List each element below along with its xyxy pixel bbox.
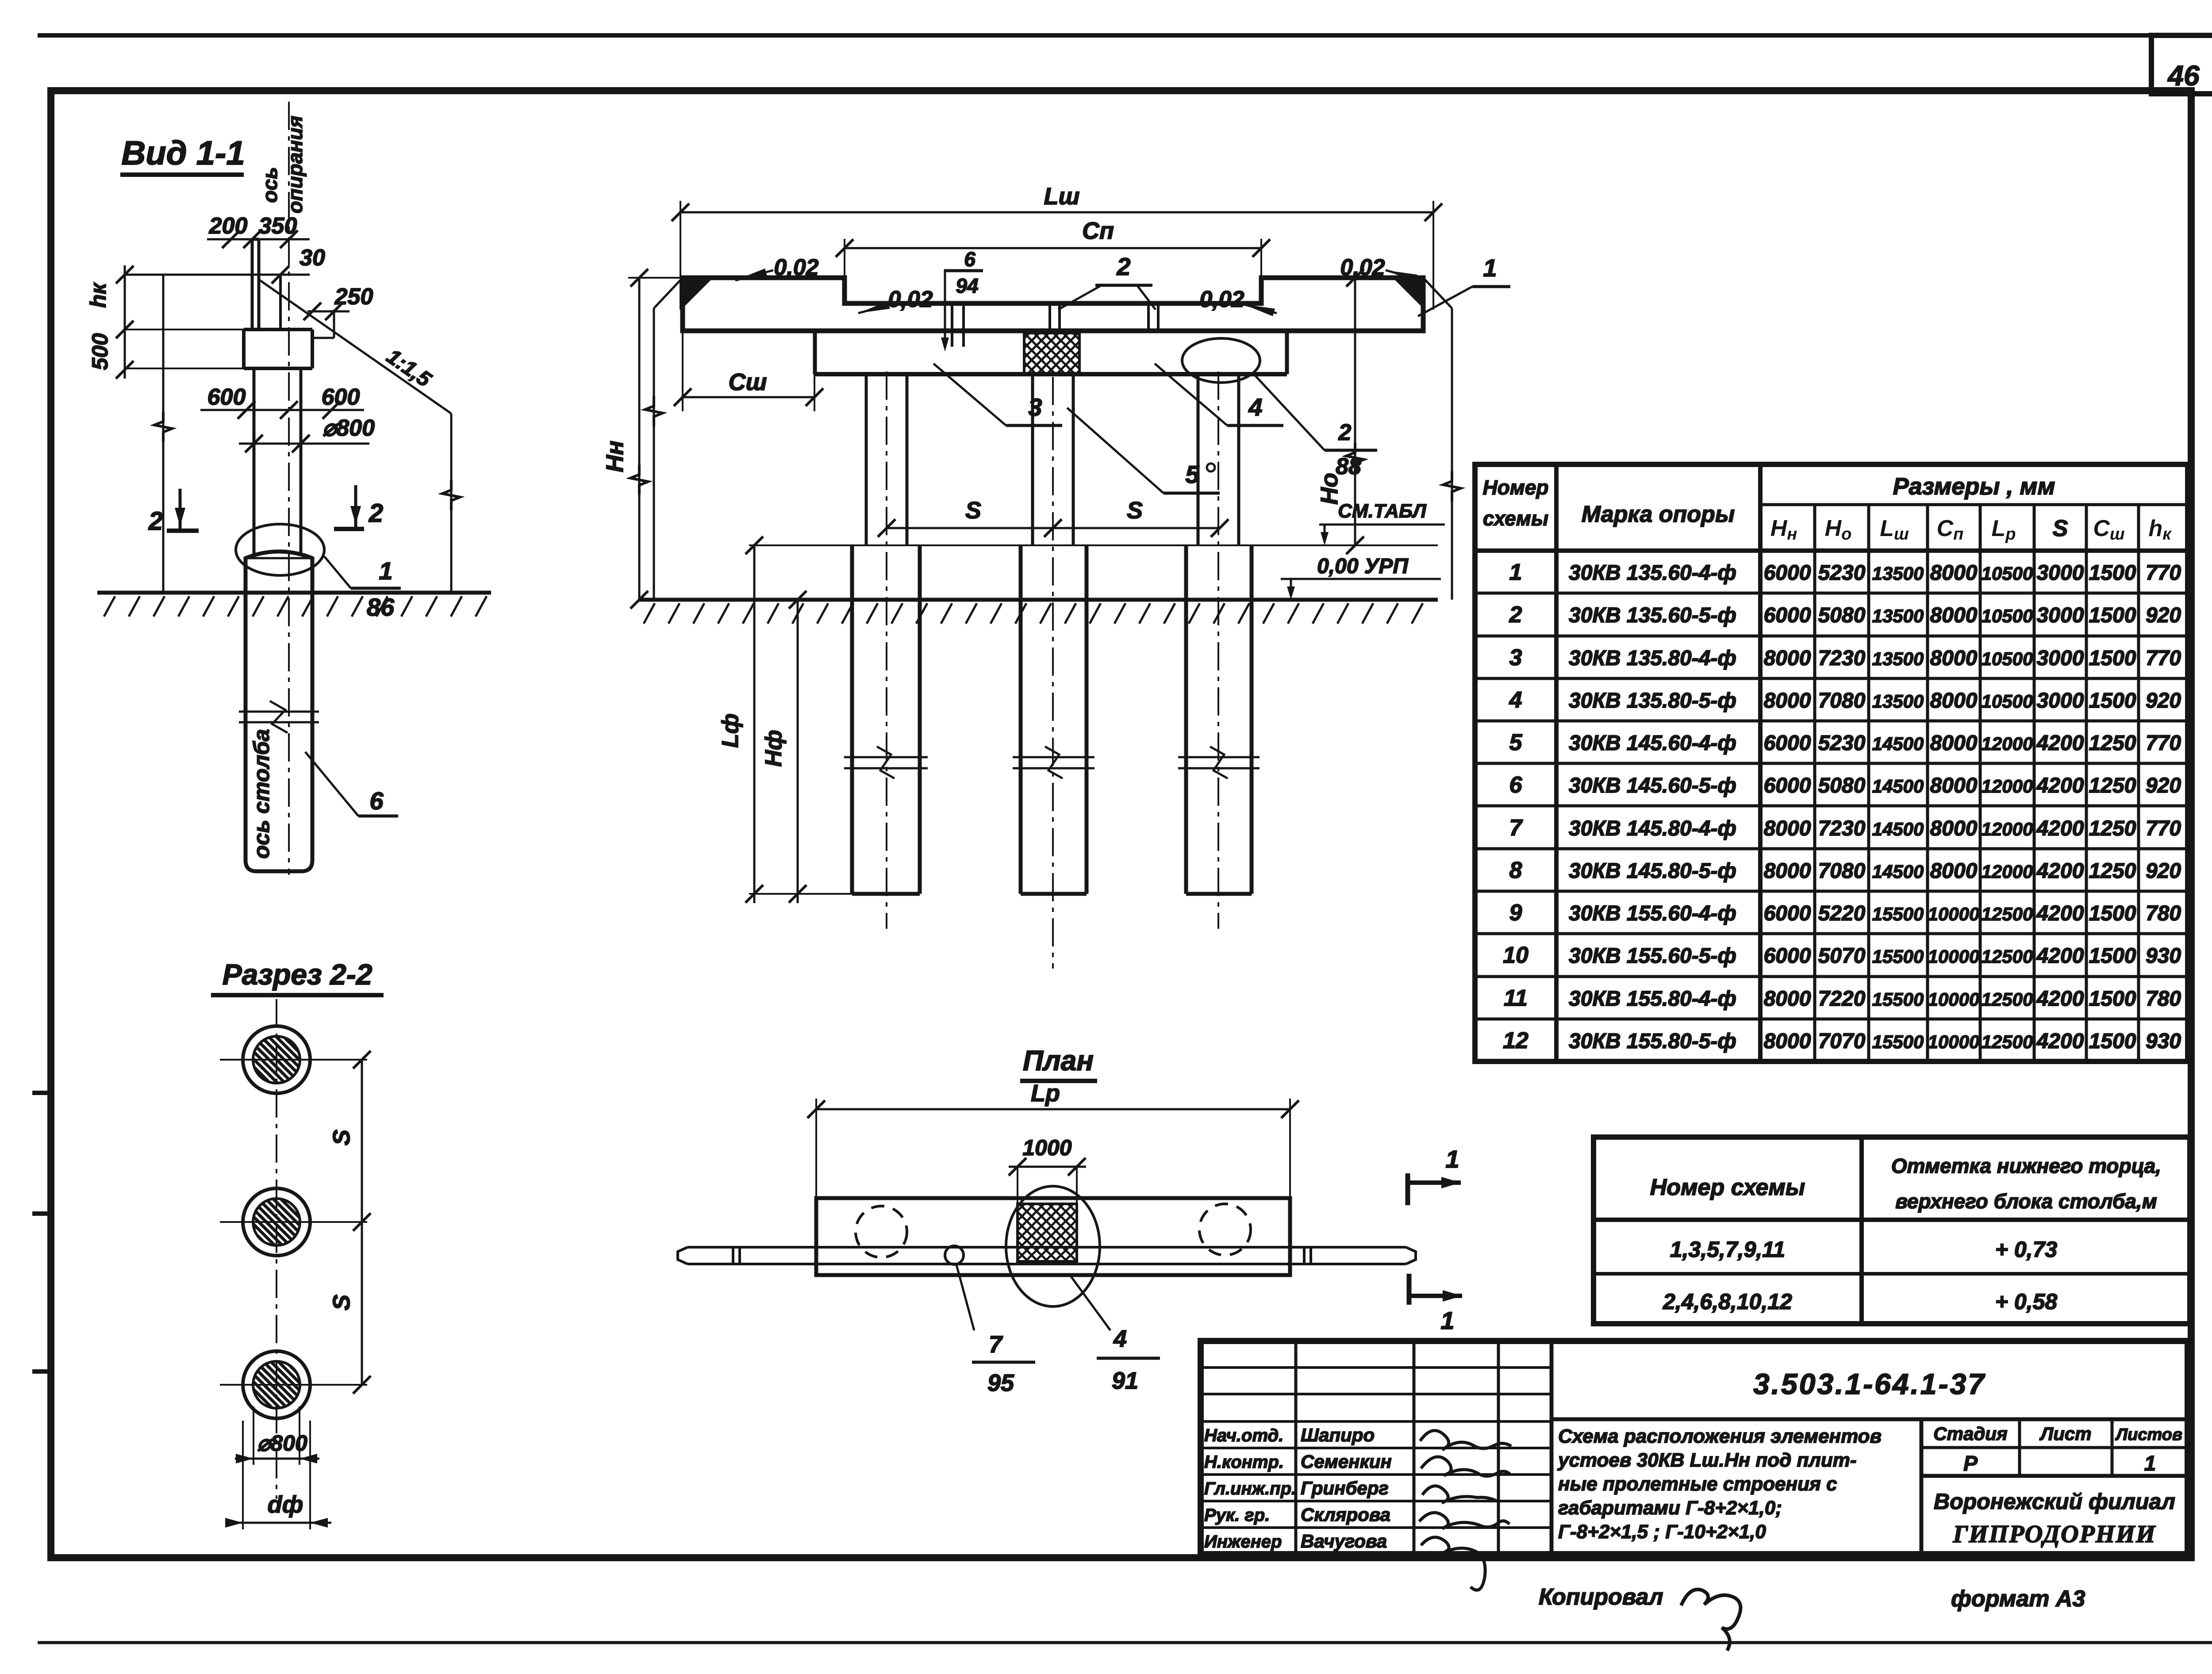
svg-text:7230: 7230 [1818,647,1866,670]
svg-text:6: 6 [964,248,975,271]
svg-text:S: S [328,1130,355,1145]
svg-text:S: S [2053,516,2068,541]
svg-text:12500: 12500 [1982,989,2033,1010]
svg-text:7: 7 [989,1331,1003,1358]
svg-text:Стадия: Стадия [1933,1423,2007,1444]
svg-text:8000: 8000 [1930,647,1978,670]
svg-text:3000: 3000 [2037,689,2084,713]
svg-text:2: 2 [148,507,163,536]
svg-text:опирания: опирания [284,116,307,214]
svg-text:13500: 13500 [1872,648,1924,669]
svg-text:4200: 4200 [2036,817,2084,840]
svg-text:770: 770 [2146,647,2181,670]
svg-text:0,02: 0,02 [774,255,818,280]
svg-text:Г-8+2×1,5 ; Г-10+2×1,0: Г-8+2×1,5 ; Г-10+2×1,0 [1558,1521,1766,1543]
svg-text:Lф: Lф [718,713,743,748]
svg-text:780: 780 [2146,987,2181,1011]
svg-text:1500: 1500 [2089,1030,2136,1053]
svg-text:Нач.отд.: Нач.отд. [1204,1426,1283,1445]
svg-text:Склярова: Склярова [1301,1504,1390,1525]
svg-text:30КВ 135.80-4-ф: 30КВ 135.80-4-ф [1569,647,1736,670]
svg-text:+ 0,73: + 0,73 [1995,1237,2058,1262]
svg-text:5230: 5230 [1818,732,1866,755]
svg-text:920: 920 [2146,774,2181,797]
svg-text:30КВ 135.60-5-ф: 30КВ 135.60-5-ф [1569,604,1736,627]
svg-text:Вид 1-1: Вид 1-1 [121,134,245,172]
svg-text:15500: 15500 [1872,989,1924,1010]
svg-text:5080: 5080 [1818,604,1866,627]
svg-text:10000: 10000 [1928,904,1980,924]
svg-text:12000: 12000 [1982,733,2033,754]
svg-text:1: 1 [1445,1145,1459,1173]
svg-text:1500: 1500 [2089,604,2136,627]
svg-text:30КВ 135.80-5-ф: 30КВ 135.80-5-ф [1569,689,1736,713]
svg-text:6000: 6000 [1764,561,1811,585]
svg-text:250: 250 [334,284,373,310]
svg-text:0,00 УРП: 0,00 УРП [1317,555,1409,578]
svg-text:⌀800: ⌀800 [323,415,375,441]
svg-text:10500: 10500 [1982,605,2033,626]
svg-text:94: 94 [956,274,978,297]
svg-text:930: 930 [2146,1030,2181,1053]
svg-text:6000: 6000 [1764,774,1811,797]
svg-text:4200: 4200 [2036,774,2084,797]
svg-text:2,4,6,8,10,12: 2,4,6,8,10,12 [1663,1289,1792,1314]
svg-text:8000: 8000 [1764,817,1811,840]
svg-text:46: 46 [2167,60,2200,92]
svg-text:3000: 3000 [2037,604,2084,627]
svg-text:Нф: Нф [761,730,787,767]
svg-text:200: 200 [209,213,248,239]
svg-text:3: 3 [1509,645,1522,670]
svg-text:Воронежский филиал: Воронежский филиал [1934,1489,2175,1514]
svg-text:770: 770 [2146,817,2181,840]
svg-text:Нн: Нн [602,441,628,472]
svg-text:4200: 4200 [2036,1030,2084,1053]
svg-text:формат А3: формат А3 [1951,1586,2085,1612]
svg-text:S: S [328,1295,355,1310]
svg-text:Сш: Сш [728,369,767,395]
svg-text:5080: 5080 [1818,774,1866,797]
svg-text:1: 1 [2144,1452,2156,1475]
svg-text:3000: 3000 [2037,561,2084,585]
svg-text:1500: 1500 [2089,647,2136,670]
svg-text:8000: 8000 [1930,774,1978,797]
svg-text:1: 1 [1483,254,1497,282]
svg-text:⌀800: ⌀800 [257,1431,307,1456]
svg-text:13500: 13500 [1872,605,1924,626]
svg-text:920: 920 [2146,859,2181,883]
svg-text:7080: 7080 [1818,859,1866,883]
svg-text:8000: 8000 [1764,689,1811,713]
svg-text:9: 9 [1509,900,1522,926]
svg-text:91: 91 [1112,1368,1138,1394]
svg-text:4: 4 [1113,1325,1127,1352]
svg-text:1250: 1250 [2089,732,2136,755]
svg-text:Марка опоры: Марка опоры [1582,502,1735,527]
svg-text:12000: 12000 [1982,819,2033,839]
svg-text:14500: 14500 [1872,776,1924,797]
svg-text:4200: 4200 [2036,944,2084,968]
svg-text:+ 0,58: + 0,58 [1995,1289,2058,1314]
svg-text:3000: 3000 [2037,647,2084,670]
svg-text:ось столба: ось столба [249,729,274,858]
svg-text:500: 500 [88,333,112,370]
svg-text:Шапиро: Шапиро [1301,1425,1375,1445]
svg-text:1: 1 [1440,1306,1454,1334]
svg-text:устоев 30КВ Lш.Нн под плит-: устоев 30КВ Lш.Нн под плит- [1557,1449,1857,1471]
svg-text:S: S [1127,497,1143,524]
svg-text:6000: 6000 [1764,944,1811,968]
svg-text:4200: 4200 [2036,987,2084,1011]
svg-text:10500: 10500 [1982,563,2033,584]
svg-text:10: 10 [1503,942,1528,968]
svg-text:4: 4 [1509,687,1522,713]
svg-text:8000: 8000 [1930,689,1978,713]
svg-text:7: 7 [1509,815,1523,841]
svg-text:7070: 7070 [1818,1030,1866,1053]
svg-text:2: 2 [1338,420,1352,445]
svg-text:Р: Р [1963,1452,1978,1475]
svg-text:15500: 15500 [1872,1031,1924,1052]
svg-text:габаритами Г-8+2×1,0;: габаритами Г-8+2×1,0; [1558,1497,1782,1519]
svg-text:1500: 1500 [2089,987,2136,1011]
svg-text:1,3,5,7,9,11: 1,3,5,7,9,11 [1670,1237,1785,1262]
svg-text:0,02: 0,02 [1340,255,1385,280]
svg-text:8000: 8000 [1930,561,1978,585]
svg-text:Вачугова: Вачугова [1301,1531,1387,1551]
svg-text:7220: 7220 [1818,987,1866,1011]
svg-text:СМ.ТАБЛ: СМ.ТАБЛ [1338,500,1426,522]
svg-text:30: 30 [300,245,325,271]
svg-text:10500: 10500 [1982,648,2033,669]
svg-text:95: 95 [987,1370,1014,1396]
svg-text:ГИПРОДОРНИИ: ГИПРОДОРНИИ [1952,1521,2156,1548]
svg-text:8000: 8000 [1764,1030,1811,1053]
svg-text:Lр: Lр [1031,1080,1060,1107]
svg-text:Лист: Лист [2039,1423,2091,1444]
svg-text:Инженер: Инженер [1204,1532,1282,1551]
svg-text:hк: hк [86,282,111,308]
svg-text:Копировал: Копировал [1539,1584,1663,1610]
svg-text:780: 780 [2146,902,2181,925]
svg-text:6: 6 [1509,772,1523,798]
svg-text:2: 2 [369,499,383,528]
svg-text:14500: 14500 [1872,819,1924,839]
svg-text:15500: 15500 [1872,946,1924,967]
svg-text:12500: 12500 [1982,904,2033,924]
svg-text:930: 930 [2146,944,2181,968]
svg-text:8000: 8000 [1764,987,1811,1011]
svg-text:7230: 7230 [1818,817,1866,840]
svg-text:5070: 5070 [1818,944,1866,968]
svg-text:5: 5 [1509,730,1523,755]
svg-text:30КВ 145.60-5-ф: 30КВ 145.60-5-ф [1569,774,1736,797]
svg-text:12000: 12000 [1982,861,2033,882]
svg-text:Гл.инж.пр.: Гл.инж.пр. [1204,1479,1296,1498]
svg-text:6000: 6000 [1764,902,1811,925]
svg-text:8000: 8000 [1930,859,1978,883]
svg-text:6000: 6000 [1764,604,1811,627]
svg-text:Семенкин: Семенкин [1301,1451,1392,1472]
svg-text:30КВ 135.60-4-ф: 30КВ 135.60-4-ф [1569,561,1736,585]
svg-text:4200: 4200 [2036,859,2084,883]
svg-text:12000: 12000 [1982,776,2033,797]
svg-text:План: План [1023,1045,1094,1076]
svg-text:15500: 15500 [1872,904,1924,924]
svg-text:12: 12 [1503,1028,1528,1053]
svg-text:Сп: Сп [1082,218,1114,244]
svg-text:14500: 14500 [1872,733,1924,754]
svg-text:Н.контр.: Н.контр. [1204,1452,1284,1472]
svg-text:1: 1 [379,557,392,585]
svg-text:30КВ 145.80-5-ф: 30КВ 145.80-5-ф [1569,859,1736,883]
svg-text:Схема расположения элементов: Схема расположения элементов [1558,1425,1882,1447]
svg-text:770: 770 [2146,732,2181,755]
svg-text:0,02: 0,02 [1199,287,1244,312]
svg-text:8000: 8000 [1930,817,1978,840]
svg-text:1250: 1250 [2089,859,2136,883]
svg-text:4: 4 [1248,393,1262,421]
svg-text:1000: 1000 [1022,1135,1071,1160]
svg-text:1500: 1500 [2089,561,2136,585]
svg-text:Размеры , мм: Размеры , мм [1893,473,2055,500]
svg-text:4200: 4200 [2036,902,2084,925]
svg-text:S: S [965,497,981,524]
svg-text:0,02: 0,02 [888,287,933,312]
svg-text:верхнего блока столба,м: верхнего блока столба,м [1895,1190,2157,1213]
svg-text:ось: ось [258,167,281,203]
svg-text:4200: 4200 [2036,732,2084,755]
svg-text:Разрез 2-2: Разрез 2-2 [223,958,373,991]
svg-text:5230: 5230 [1818,561,1866,585]
svg-text:350: 350 [259,213,297,239]
svg-text:10500: 10500 [1982,691,2033,712]
svg-text:10000: 10000 [1928,946,1980,967]
svg-text:5220: 5220 [1818,902,1866,925]
svg-text:схемы: схемы [1483,507,1548,530]
svg-text:1500: 1500 [2089,689,2136,713]
svg-text:12500: 12500 [1982,946,2033,967]
svg-text:30КВ 155.80-5-ф: 30КВ 155.80-5-ф [1569,1030,1736,1053]
svg-text:11: 11 [1504,985,1528,1011]
svg-text:14500: 14500 [1872,861,1924,882]
svg-text:1500: 1500 [2089,944,2136,968]
svg-text:10000: 10000 [1928,989,1980,1010]
svg-text:1250: 1250 [2089,774,2136,797]
svg-text:ные пролетные строения с: ные пролетные строения с [1558,1473,1837,1495]
svg-text:8000: 8000 [1930,732,1978,755]
svg-text:1: 1 [1509,559,1522,585]
svg-text:30КВ 145.60-4-ф: 30КВ 145.60-4-ф [1569,732,1736,755]
svg-text:600: 600 [207,384,246,410]
svg-text:3.503.1-64.1-37: 3.503.1-64.1-37 [1753,1368,1986,1400]
svg-text:Номер схемы: Номер схемы [1650,1175,1805,1200]
svg-text:Номер: Номер [1482,476,1548,499]
svg-text:Отметка нижнего торца,: Отметка нижнего торца, [1891,1154,2161,1177]
svg-text:6: 6 [369,787,384,815]
svg-text:30КВ 155.80-4-ф: 30КВ 155.80-4-ф [1569,987,1736,1011]
svg-text:30КВ 155.60-5-ф: 30КВ 155.60-5-ф [1569,944,1736,968]
svg-text:Гринберг: Гринберг [1301,1478,1389,1498]
svg-text:8000: 8000 [1764,647,1811,670]
svg-text:8000: 8000 [1930,604,1978,627]
svg-text:1250: 1250 [2089,817,2136,840]
svg-text:Lш: Lш [1044,183,1080,210]
svg-text:Рук. гр.: Рук. гр. [1204,1505,1270,1525]
svg-text:8: 8 [1509,858,1522,883]
svg-text:770: 770 [2146,561,2181,585]
svg-text:30КВ 155.60-4-ф: 30КВ 155.60-4-ф [1569,902,1736,925]
svg-text:8000: 8000 [1764,859,1811,883]
svg-text:920: 920 [2146,604,2181,627]
svg-text:30КВ 145.80-4-ф: 30КВ 145.80-4-ф [1569,817,1736,840]
svg-text:3: 3 [1028,393,1042,421]
svg-text:12500: 12500 [1982,1031,2033,1052]
svg-text:920: 920 [2146,689,2181,713]
svg-text:10000: 10000 [1928,1031,1980,1052]
svg-text:2: 2 [1509,602,1522,628]
svg-text:600: 600 [322,384,360,410]
svg-text:Листов: Листов [2115,1425,2182,1444]
svg-text:13500: 13500 [1872,691,1924,712]
svg-text:13500: 13500 [1872,563,1924,584]
svg-text:1500: 1500 [2089,902,2136,925]
svg-text:7080: 7080 [1818,689,1866,713]
svg-text:6000: 6000 [1764,732,1811,755]
svg-text:2: 2 [1116,253,1130,280]
svg-text:dф: dф [268,1491,303,1518]
